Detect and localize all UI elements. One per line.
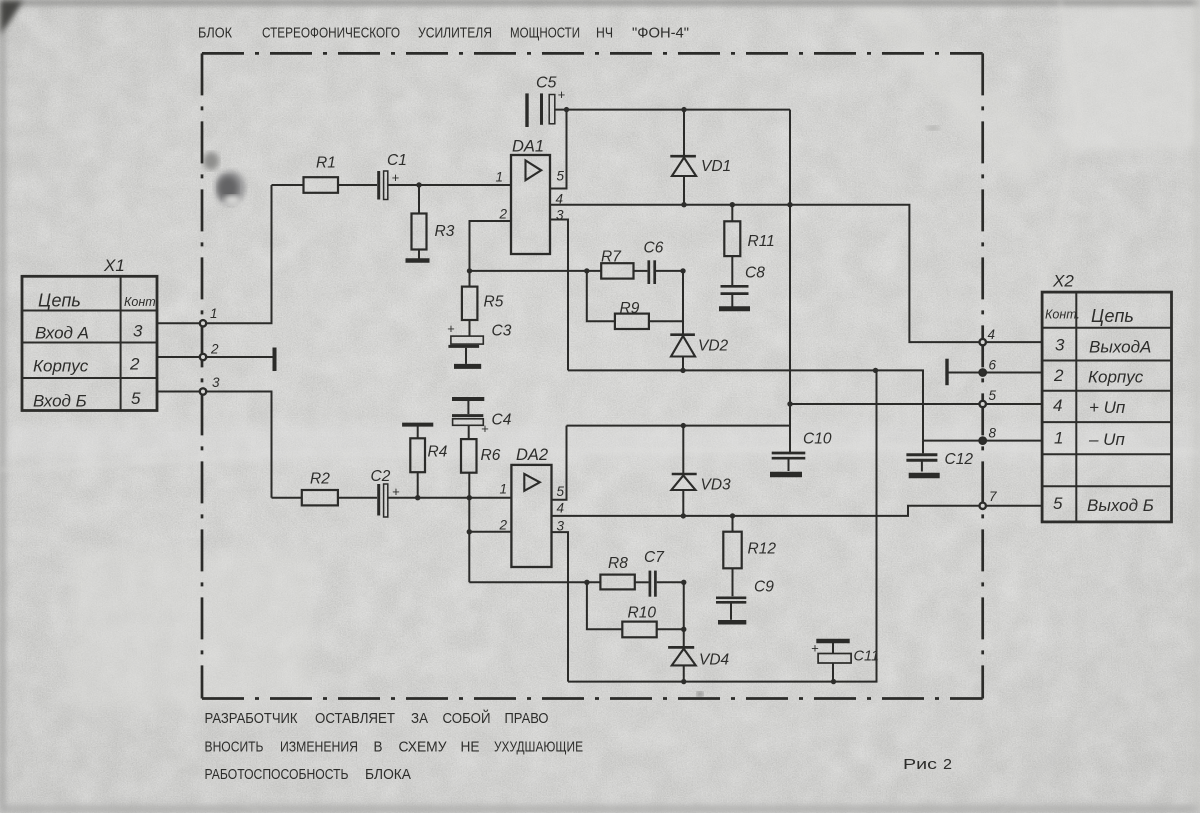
node 6 — [979, 358, 1042, 376]
node R10-VD4 — [681, 627, 686, 632]
wire R7 to C6 — [634, 270, 648, 272]
svg-text:Рис: Рис — [903, 756, 938, 773]
node pin2 DA2 — [467, 529, 472, 534]
svg-text:ВНОСИТЬ: ВНОСИТЬ — [205, 739, 264, 756]
op-amp DA2 — [511, 446, 551, 567]
svg-text:X1: X1 — [103, 256, 125, 275]
svg-text:Цепь: Цепь — [1091, 306, 1134, 326]
svg-text:СТЕРЕОФОНИЧЕСКОГО: СТЕРЕОФОНИЧЕСКОГО — [262, 25, 400, 42]
chassis bar X2 — [945, 359, 948, 386]
ground under C8 — [719, 306, 750, 311]
svg-text:VD3: VD3 — [701, 477, 732, 494]
svg-text:Корпус: Корпус — [33, 357, 89, 376]
capacitor C11 — [811, 641, 879, 682]
wire C1 to DA1 pin1 — [388, 184, 511, 186]
wire X1 pin3 to input B — [157, 392, 272, 498]
ground under R3 — [406, 258, 430, 263]
svg-text:3: 3 — [557, 519, 565, 534]
svg-text:ВыходА: ВыходА — [1089, 338, 1151, 357]
diode VD3 — [671, 426, 731, 516]
svg-text:Конт.: Конт. — [1045, 308, 1080, 322]
node pin4-R11 — [730, 202, 735, 207]
wire C7 to VD line — [657, 581, 684, 583]
wire input B line — [272, 497, 302, 499]
svg-text:R5: R5 — [484, 294, 504, 311]
chassis bar X1 — [273, 348, 277, 372]
node VD1 top — [681, 107, 686, 112]
svg-text:7: 7 — [989, 489, 997, 504]
op-amp DA1 — [511, 138, 550, 255]
svg-text:– Uп: – Uп — [1088, 430, 1125, 449]
node C11 bottom — [831, 679, 836, 684]
resistor R3 — [412, 185, 455, 259]
svg-text:БЛОК: БЛОК — [198, 25, 232, 42]
node VD3 top — [681, 423, 686, 428]
node R6 bottom — [467, 495, 472, 500]
dash-dot frame border — [202, 53, 983, 698]
ground over C4 — [452, 397, 484, 401]
node C6-VD — [680, 268, 685, 273]
svg-text:ОСТАВЛЯЕТ: ОСТАВЛЯЕТ — [315, 710, 395, 727]
svg-text:+: + — [392, 170, 400, 185]
svg-text:8: 8 — [989, 426, 997, 441]
connector X2 table — [1042, 292, 1171, 522]
svg-text:4: 4 — [988, 327, 996, 342]
pin 1 label — [496, 170, 504, 185]
svg-text:C5: C5 — [536, 75, 557, 92]
capacitor C5 — [527, 75, 566, 128]
svg-text:1: 1 — [500, 482, 508, 497]
svg-text:C12: C12 — [945, 451, 974, 468]
svg-text:Корпус: Корпус — [1088, 368, 1144, 387]
svg-text:"ФОН-4": "ФОН-4" — [632, 25, 689, 42]
svg-text:R4: R4 — [428, 444, 448, 461]
bottom note text — [205, 709, 953, 783]
wire +Uп to X2 — [790, 403, 983, 405]
svg-text:УСИЛИТЕЛЯ: УСИЛИТЕЛЯ — [418, 25, 492, 42]
resistor R7 — [601, 249, 634, 279]
wire input A line — [272, 184, 304, 186]
svg-text:C11: C11 — [854, 649, 880, 665]
node C1-R3 — [416, 182, 421, 187]
capacitor C10 — [772, 431, 832, 472]
wire pin2 net lower — [469, 581, 600, 583]
svg-text:R9: R9 — [620, 300, 640, 317]
svg-text:СОБОЙ: СОБОЙ — [443, 709, 491, 727]
pin 2 wire DA2 — [470, 518, 511, 533]
wire R2 to C2 — [338, 497, 377, 499]
svg-text:DA1: DA1 — [512, 138, 544, 156]
node +Uп start — [787, 401, 792, 406]
diode VD4 — [668, 582, 729, 681]
wire R1 to C1 — [338, 184, 377, 186]
svg-text:Выход Б: Выход Б — [1087, 496, 1154, 515]
pin 4 label — [556, 192, 564, 207]
svg-text:R2: R2 — [310, 471, 330, 488]
capacitor C7 — [644, 549, 665, 597]
svg-text:VD2: VD2 — [698, 338, 729, 355]
resistor R11 — [724, 205, 774, 285]
node R12 top — [730, 513, 735, 518]
node VD4 bottom — [681, 679, 686, 684]
pin 4 label DA2 — [557, 501, 565, 516]
svg-text:1: 1 — [210, 306, 218, 321]
capacitor C12 — [906, 441, 973, 472]
pin 3 wire DA2 — [552, 519, 569, 682]
wire C6 to VD line — [656, 270, 683, 272]
svg-text:2: 2 — [129, 355, 140, 374]
svg-text:1: 1 — [496, 170, 504, 185]
capacitor C2 — [371, 468, 401, 517]
svg-text:1: 1 — [1054, 429, 1063, 448]
svg-text:VD4: VD4 — [699, 652, 730, 669]
svg-text:C6: C6 — [644, 240, 664, 257]
node 7 — [980, 489, 1043, 509]
svg-text:R10: R10 — [628, 605, 657, 622]
node 4 — [980, 327, 1043, 345]
resistor R2 — [302, 471, 338, 506]
node 1 — [200, 306, 218, 326]
svg-text:РАЗРАБОТЧИК: РАЗРАБОТЧИК — [205, 710, 298, 727]
svg-text:+: + — [558, 87, 566, 102]
svg-text:В: В — [374, 739, 383, 756]
svg-text:R11: R11 — [748, 233, 775, 250]
resistor R8 — [600, 555, 634, 589]
node C5-pin5 — [564, 107, 569, 112]
capacitor C3 — [447, 321, 512, 364]
svg-text:3: 3 — [133, 322, 143, 341]
diode VD2 — [670, 271, 728, 371]
svg-text:5: 5 — [131, 389, 141, 408]
svg-text:5: 5 — [557, 169, 565, 184]
wire -Uп row to X2 — [923, 440, 983, 442]
svg-text:C2: C2 — [371, 468, 391, 485]
svg-text:2: 2 — [1053, 366, 1064, 385]
wire R8 to C7 — [635, 581, 649, 583]
svg-text:3: 3 — [1055, 336, 1065, 355]
ground under C3 — [454, 364, 481, 369]
svg-text:ЗА: ЗА — [411, 710, 428, 727]
svg-text:Конт.: Конт. — [124, 295, 159, 309]
svg-text:VD1: VD1 — [701, 158, 731, 175]
resistor R9 — [587, 271, 683, 329]
svg-text:Цепь: Цепь — [38, 291, 81, 311]
svg-text:НЕ: НЕ — [461, 739, 480, 756]
node 8 — [979, 426, 1042, 445]
svg-text:БЛОКА: БЛОКА — [365, 766, 411, 783]
svg-text:2: 2 — [943, 756, 952, 773]
pin 3 wire DA1 — [550, 208, 568, 371]
svg-text:C7: C7 — [644, 549, 665, 566]
svg-text:ИЗМЕНЕНИЯ: ИЗМЕНЕНИЯ — [280, 739, 358, 756]
svg-text:5: 5 — [1053, 494, 1063, 513]
resistor R5 — [462, 271, 504, 336]
pin 2 wire DA1 — [470, 207, 512, 271]
svg-text:Вход А: Вход А — [35, 324, 89, 343]
node VD3 bottom — [681, 513, 686, 518]
ground under C12 — [909, 473, 940, 479]
diode VD1 — [670, 110, 731, 205]
node 5 — [980, 388, 1043, 407]
capacitor C1 — [379, 152, 407, 200]
ground under C10 — [770, 472, 802, 478]
svg-text:3: 3 — [212, 375, 220, 390]
wire pin2 node to R7 — [470, 270, 602, 272]
capacitor C8 — [721, 265, 766, 307]
wire DA2 pin4 to X2 (5 ВыходБ) — [552, 506, 983, 516]
node R5 top — [467, 268, 472, 273]
svg-text:+: + — [481, 421, 489, 436]
resistor R10 — [587, 582, 684, 637]
pin 5 wire DA2 — [552, 426, 567, 500]
svg-text:X2: X2 — [1052, 272, 1074, 291]
ground under C9 — [718, 620, 746, 625]
node C7-VD4 — [681, 580, 686, 585]
svg-text:РАБОТОСПОСОБНОСТЬ: РАБОТОСПОСОБНОСТЬ — [205, 766, 349, 783]
svg-text:МОЩНОСТИ: МОЩНОСТИ — [510, 25, 580, 42]
wire DA1 pin4 to X2 (3 ВыходА) — [550, 205, 983, 342]
resistor R4 — [410, 427, 447, 498]
resistor R12 — [723, 516, 776, 596]
node VD2 bottom — [680, 368, 685, 373]
node -Uп branch — [873, 368, 878, 373]
node R7-R9 split — [584, 268, 589, 273]
svg-text:3: 3 — [556, 208, 564, 223]
wire C5 to corner — [555, 109, 790, 111]
svg-text:УХУДШАЮЩИЕ: УХУДШАЮЩИЕ — [494, 739, 583, 756]
title text — [198, 25, 689, 42]
wire DA2 pin5 net to C10 line — [567, 425, 791, 427]
node 3 — [200, 375, 220, 395]
svg-text:C10: C10 — [803, 431, 832, 448]
node C2-R4 — [415, 495, 420, 500]
svg-text:C3: C3 — [492, 323, 512, 340]
svg-text:+: + — [447, 321, 455, 336]
resistor R1 — [304, 155, 339, 193]
svg-text:5: 5 — [557, 484, 565, 499]
svg-text:СХЕМУ: СХЕМУ — [399, 739, 447, 756]
pin 5 wire DA1 — [550, 110, 567, 189]
node R8-R10 split — [584, 580, 589, 585]
node pin4-C10 — [787, 202, 792, 207]
svg-text:2: 2 — [210, 342, 219, 357]
capacitor C4 — [452, 401, 512, 436]
svg-text:+ Uп: + Uп — [1089, 398, 1126, 417]
ground over R4 — [402, 423, 433, 427]
capacitor C9 — [716, 579, 774, 620]
svg-text:R12: R12 — [748, 541, 777, 558]
capacitor C6 — [644, 240, 664, 285]
wire X1 pin2 (Корпус) — [157, 356, 273, 358]
svg-text:R8: R8 — [608, 555, 628, 572]
svg-text:R6: R6 — [481, 447, 501, 464]
node 2 — [200, 342, 219, 361]
node pin4-VD1 — [681, 202, 686, 207]
svg-text:4: 4 — [1053, 396, 1062, 415]
svg-text:Вход Б: Вход Б — [33, 392, 87, 411]
svg-text:C8: C8 — [745, 265, 765, 282]
svg-text:2: 2 — [499, 518, 508, 533]
svg-text:DA2: DA2 — [516, 446, 548, 464]
wire X1 pin1 to input A — [157, 185, 272, 323]
wire C10 drop — [789, 110, 791, 452]
ink stains left of border — [203, 126, 940, 697]
svg-text:C9: C9 — [754, 579, 774, 596]
wire chassis to node 6 — [949, 372, 983, 374]
ground over C11 — [816, 639, 849, 644]
resistor R6 — [461, 425, 501, 582]
feedback wire upper (pin3 net) — [568, 370, 923, 440]
bottom rail (pin3 net lower) — [568, 370, 877, 681]
pin 1 label DA2 — [500, 482, 508, 497]
svg-text:R7: R7 — [601, 249, 622, 266]
svg-text:R3: R3 — [435, 223, 455, 240]
svg-text:C4: C4 — [492, 412, 512, 429]
svg-text:R1: R1 — [316, 155, 336, 172]
wire C2 to DA2 pin1 — [388, 497, 512, 499]
svg-text:5: 5 — [989, 388, 997, 403]
svg-text:+: + — [811, 641, 819, 656]
svg-text:6: 6 — [989, 358, 997, 373]
svg-text:2: 2 — [499, 207, 508, 222]
svg-text:ПРАВО: ПРАВО — [505, 710, 549, 727]
svg-text:C1: C1 — [387, 152, 407, 169]
svg-text:4: 4 — [557, 501, 565, 516]
connector X1 table — [22, 276, 157, 410]
svg-text:НЧ: НЧ — [596, 25, 613, 42]
